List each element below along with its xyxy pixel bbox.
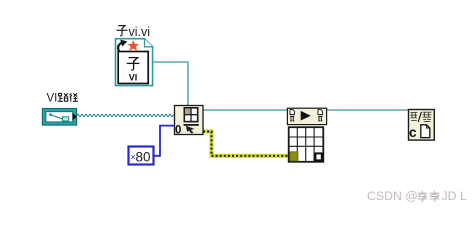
svg-text:VI: VI (129, 73, 138, 83)
svg-text:JD L: JD L (442, 189, 467, 203)
svg-text:CSDN @: CSDN @ (367, 189, 418, 203)
cursor arrow (186, 126, 195, 134)
micro text right (423, 112, 432, 121)
Open VI Reference node (175, 106, 204, 137)
top icon bar (287, 108, 326, 124)
svg-text:vi.vi: vi.vi (129, 25, 151, 39)
right mini VI doc (318, 110, 322, 115)
terminal square bottom right (315, 153, 321, 160)
label VI路径 (47, 93, 79, 105)
wire: teal refnum Call By Reference node to Close Reference node (326, 109, 409, 111)
page glyph (421, 125, 430, 138)
micro text left (410, 113, 417, 121)
wire: VI reference from static VI ref down to Open VI node (153, 62, 189, 106)
wire: teal refnum Open VI node to Call By Reference node (203, 109, 288, 111)
glyph 李 x2 (417, 191, 427, 202)
path control VI路径 (42, 109, 77, 126)
Call By Reference node (287, 108, 326, 162)
Close Reference node (409, 110, 435, 141)
svg-text:0: 0 (175, 125, 181, 137)
svg-text:VI: VI (47, 93, 58, 105)
connector pane (289, 127, 324, 162)
left mini VI doc (290, 110, 294, 115)
play triangle (301, 111, 311, 121)
wired terminal (olive) (290, 152, 298, 161)
static VI reference icon 子vi.vi (116, 39, 153, 86)
watermark CSDN (367, 189, 467, 203)
2x2 window grid (184, 108, 197, 122)
wire: path zigzag from VI path control to Open VI node (77, 114, 175, 117)
red star (128, 40, 139, 51)
glyph 径 (70, 93, 78, 101)
inner VI icon box (118, 52, 148, 84)
glyph 子 inside icon (129, 58, 138, 62)
svg-text:80: 80 (136, 150, 151, 165)
wire: strictly typed VI ref (yellow/black dashed) (203, 132, 292, 156)
shelf line (184, 124, 199, 126)
wire: blue from x80 constant to Open VI node (154, 126, 176, 156)
numeric constant x80 (129, 147, 154, 165)
label 子vi.vi (117, 25, 150, 39)
svg-text:c: c (409, 125, 417, 140)
glyph 路 (58, 93, 68, 101)
slash (418, 112, 421, 122)
curved arrow (118, 43, 122, 51)
